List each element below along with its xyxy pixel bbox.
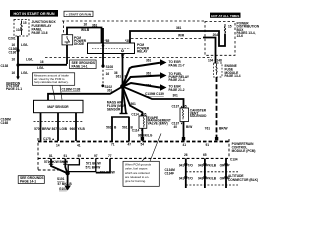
svg-text:361: 361 <box>146 72 152 76</box>
svg-text:HOT IN START OR RUN: HOT IN START OR RUN <box>13 12 54 16</box>
svg-text:867: 867 <box>52 127 58 131</box>
svg-text:SENSOR: SENSOR <box>107 107 121 111</box>
svg-text:W/LB: W/LB <box>81 28 90 32</box>
svg-text:C139M C139: C139M C139 <box>145 92 164 96</box>
svg-text:571 BK/W: 571 BK/W <box>86 166 101 170</box>
svg-text:B/W: B/W <box>186 125 192 129</box>
svg-text:LG/L: LG/L <box>21 71 28 75</box>
svg-text:91: 91 <box>64 154 68 158</box>
svg-text:95: 95 <box>78 154 82 158</box>
svg-text:C136: C136 <box>9 51 17 55</box>
svg-text:943: 943 <box>198 164 204 168</box>
svg-text:98 BK/LG: 98 BK/LG <box>138 134 153 138</box>
svg-text:570: 570 <box>34 127 40 131</box>
svg-text:361: 361 <box>107 89 113 93</box>
svg-text:OR: OR <box>220 164 225 168</box>
svg-text:C175 ▲: C175 ▲ <box>43 137 55 141</box>
svg-text:LG/B: LG/B <box>60 127 68 131</box>
svg-text:C138: C138 <box>1 64 9 68</box>
svg-text:PAGE 13-6: PAGE 13-6 <box>32 31 48 35</box>
svg-text:CONNECTOR (BLK): CONNECTOR (BLK) <box>228 178 258 182</box>
svg-text:561: 561 <box>106 126 112 130</box>
svg-text:26: 26 <box>184 153 188 157</box>
svg-text:PAGE 13-4: PAGE 13-4 <box>225 74 241 78</box>
svg-text:Y/LB: Y/LB <box>78 127 86 131</box>
svg-text:+ START OR RUN: + START OR RUN <box>66 12 91 16</box>
svg-text:40: 40 <box>173 125 177 129</box>
svg-text:14: 14 <box>56 144 60 148</box>
svg-text:361: 361 <box>176 26 182 30</box>
svg-text:S101: S101 <box>57 177 65 181</box>
svg-text:DIODE: DIODE <box>74 42 84 46</box>
svg-text:943: 943 <box>198 177 204 181</box>
svg-text:PAGE 21-4: PAGE 21-4 <box>169 78 185 82</box>
svg-text:16: 16 <box>11 43 15 47</box>
svg-text:16: 16 <box>106 72 110 76</box>
svg-text:561: 561 <box>122 126 128 130</box>
svg-text:54: 54 <box>141 143 145 147</box>
svg-text:SOLENOID: SOLENOID <box>190 114 207 118</box>
svg-text:41: 41 <box>183 143 187 147</box>
svg-text:LG/L: LG/L <box>21 43 28 47</box>
svg-text:57 BK/LB: 57 BK/LB <box>58 182 73 186</box>
svg-text:81: 81 <box>49 154 53 158</box>
svg-text:PAGE 21-7: PAGE 21-7 <box>169 63 185 67</box>
svg-text:361: 361 <box>116 74 122 78</box>
svg-text:BR/W: BR/W <box>42 127 51 131</box>
svg-text:966: 966 <box>70 127 76 131</box>
svg-text:RELAY: RELAY <box>137 50 148 54</box>
svg-text:41: 41 <box>77 144 81 148</box>
svg-text:PAGE 14-1: PAGE 14-1 <box>72 64 88 68</box>
svg-text:C134F: C134F <box>165 172 175 176</box>
svg-text:C137 ▲95: C137 ▲95 <box>172 104 187 108</box>
svg-text:MODULE (PCM): MODULE (PCM) <box>232 149 256 153</box>
svg-text:77: 77 <box>108 154 112 158</box>
svg-text:15: 15 <box>23 21 27 25</box>
svg-text:PK/LB: PK/LB <box>207 164 217 168</box>
svg-text:*85: *85 <box>105 39 110 43</box>
svg-text:10A: 10A <box>16 28 23 32</box>
svg-text:PAGE 21-2: PAGE 21-2 <box>169 88 185 92</box>
svg-text:361: 361 <box>92 24 98 28</box>
svg-text:C138M C138: C138M C138 <box>62 88 81 92</box>
svg-text:C114 ▼: C114 ▼ <box>132 129 143 133</box>
svg-text:S108: S108 <box>106 65 114 69</box>
svg-text:VALVE (EMV): VALVE (EMV) <box>148 121 168 125</box>
svg-text:16: 16 <box>11 71 15 75</box>
svg-text:71: 71 <box>111 143 115 147</box>
svg-text:C168: C168 <box>1 121 9 125</box>
svg-text:16: 16 <box>84 22 88 26</box>
svg-text:104 C148: 104 C148 <box>208 59 222 63</box>
svg-text:13-6: 13-6 <box>237 34 244 38</box>
svg-text:T/O: T/O <box>188 177 194 181</box>
svg-text:91: 91 <box>206 143 210 147</box>
svg-text:C261: C261 <box>8 37 16 41</box>
svg-text:361: 361 <box>146 59 152 63</box>
svg-text:LG/L: LG/L <box>37 66 44 70</box>
svg-text:PAGE 14-1: PAGE 14-1 <box>20 180 36 184</box>
svg-text:gine for burning.: gine for burning. <box>125 179 146 183</box>
svg-text:16: 16 <box>11 58 15 62</box>
svg-text:OR: OR <box>220 177 225 181</box>
svg-text:941: 941 <box>179 177 185 181</box>
svg-text:help calculate fuel delivery.: help calculate fuel delivery. <box>34 80 69 84</box>
svg-text:T/O: T/O <box>188 164 194 168</box>
svg-text:361: 361 <box>146 84 152 88</box>
svg-text:16: 16 <box>40 60 44 64</box>
svg-text:PK/LB: PK/LB <box>207 177 217 181</box>
svg-text:W/R: W/R <box>178 34 185 38</box>
svg-text:47: 47 <box>128 143 132 147</box>
svg-text:MAF SENSOR: MAF SENSOR <box>47 105 69 109</box>
svg-text:761: 761 <box>205 126 211 130</box>
svg-text:PAGE 21-1: PAGE 21-1 <box>6 87 22 91</box>
svg-text:15: 15 <box>228 25 232 29</box>
svg-text:20A: 20A <box>213 33 220 37</box>
svg-text:65: 65 <box>203 153 207 157</box>
svg-text:941: 941 <box>179 164 185 168</box>
svg-text:561: 561 <box>131 102 137 106</box>
svg-text:HOT AT ALL TIMES: HOT AT ALL TIMES <box>211 14 239 18</box>
svg-text:301: 301 <box>173 94 179 98</box>
svg-text:97: 97 <box>94 154 98 158</box>
svg-text:C134: C134 <box>230 158 238 162</box>
svg-text:LG/L: LG/L <box>26 58 33 62</box>
svg-text:BR/W: BR/W <box>219 126 228 130</box>
